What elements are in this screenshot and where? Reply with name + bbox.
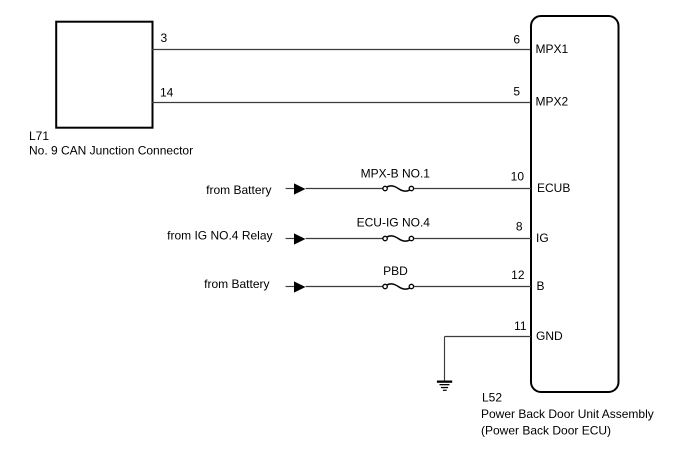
svg-text:IG: IG (536, 231, 549, 245)
fuse PBD (383, 284, 414, 289)
svg-text:MPX2: MPX2 (536, 95, 569, 109)
arrow head B row (286, 281, 306, 292)
ground (437, 381, 452, 391)
wire IG row right segment (414, 238, 531, 240)
wire B row right segment (414, 286, 531, 288)
svg-text:11: 11 (514, 319, 527, 333)
svg-text:No. 9 CAN Junction Connector: No. 9 CAN Junction Connector (29, 144, 193, 158)
svg-text:6: 6 (513, 33, 520, 47)
wire B row left segment (306, 286, 383, 288)
wire GND vertical segment (444, 337, 446, 382)
ECU L52 box (531, 16, 619, 392)
svg-text:PBD: PBD (383, 264, 408, 278)
wire MPX1 from L71 pin 3 to L52 pin 6 (152, 49, 531, 51)
svg-text:Power Back Door Unit Assembly: Power Back Door Unit Assembly (481, 407, 654, 421)
svg-text:14: 14 (160, 86, 174, 100)
wire ECUB row right segment (414, 188, 531, 190)
svg-text:(Power Back Door ECU): (Power Back Door ECU) (481, 424, 611, 438)
wire IG row left segment (306, 238, 383, 240)
svg-text:L71: L71 (29, 129, 49, 143)
wire ECUB row left segment (306, 188, 383, 190)
svg-text:from Battery: from Battery (204, 277, 269, 291)
svg-text:12: 12 (511, 268, 525, 282)
wire MPX2 from L71 pin 14 to L52 pin 5 (152, 102, 531, 104)
connector L71 box (56, 22, 152, 128)
svg-text:B: B (537, 279, 545, 293)
svg-text:from Battery: from Battery (206, 183, 271, 197)
svg-text:5: 5 (513, 85, 520, 99)
svg-text:from IG NO.4 Relay: from IG NO.4 Relay (167, 229, 272, 243)
fuse ECU-IG NO.4 (383, 236, 414, 241)
arrow head IG row (286, 233, 306, 244)
svg-text:ECU-IG NO.4: ECU-IG NO.4 (357, 216, 431, 230)
fuse MPX-B NO.1 (383, 186, 414, 191)
svg-text:MPX1: MPX1 (536, 42, 569, 56)
svg-text:10: 10 (511, 170, 525, 184)
wire GND horizontal segment (445, 336, 532, 338)
svg-text:ECUB: ECUB (537, 181, 570, 195)
svg-text:L52: L52 (482, 390, 502, 404)
arrow head ECUB row (286, 183, 306, 194)
svg-text:GND: GND (536, 329, 563, 343)
svg-text:3: 3 (161, 31, 168, 45)
svg-text:8: 8 (516, 220, 523, 234)
svg-text:MPX-B NO.1: MPX-B NO.1 (361, 167, 431, 181)
